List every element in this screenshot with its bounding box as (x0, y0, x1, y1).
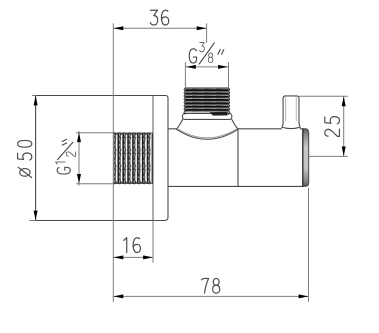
flange edge extension lines for dia 50 (30, 96, 36, 221)
G3/8 text (189, 43, 224, 64)
male thread jagged right edge (229, 88, 230, 114)
bell lower arc (outer) (176, 129, 238, 139)
end cap with shading (303, 129, 309, 187)
36 text (150, 10, 168, 25)
16 text (124, 238, 141, 253)
female thread boundary lines (114, 133, 153, 184)
16 dimension line (113, 256, 153, 258)
78 text (201, 278, 219, 293)
G3/8 dimension extension lines (185, 63, 228, 88)
knob base flare (282, 124, 301, 129)
25 text (rotated) (325, 117, 340, 137)
16 dimension right extension line (152, 221, 154, 262)
78 dimension right extension line (308, 188, 310, 302)
wall-plane extension line (common for 36 / 16 / 78 dims) (112, 24, 114, 302)
male thread top edge (185, 87, 228, 89)
16 arrows (114, 255, 124, 259)
25 dimension line (343, 96, 345, 156)
G1/2 dimension extension lines (77, 133, 114, 184)
G3/8 dimension line (185, 66, 228, 68)
end cap joint line (302, 129, 304, 186)
dia50 dimension arrows (34, 96, 38, 106)
G3/8 arrows (186, 65, 196, 69)
78 arrows (114, 294, 124, 298)
valve body horizontal cylinder (168, 129, 303, 187)
inner bore line (thread end plane) (152, 96, 154, 221)
36 dimension line (113, 27, 206, 29)
25 dimension extension lines (300, 96, 348, 156)
handle knob (283, 96, 299, 127)
female thread G1/2 hatch block (114, 133, 153, 184)
G1/2 text (rotated) (55, 139, 75, 174)
female thread crest points (114, 133, 151, 135)
78 dimension line (113, 295, 308, 297)
dia50 text (rotated) (18, 140, 32, 177)
36 right extension line (valve axis) (206, 24, 208, 43)
bonnet collar (183, 113, 232, 119)
male thread G3/8 block (185, 88, 228, 112)
body joint line (237, 129, 239, 187)
G1/2 dimension line (78, 131, 80, 185)
male thread jagged left edge (184, 88, 185, 114)
G1/2 arrow down (77, 174, 81, 184)
flange plate (wall escutcheon, side view) (36, 96, 168, 221)
knob inner highlight lines (286, 98, 297, 121)
36 arrows (114, 26, 124, 30)
bell lower arc (inner highlight) (178, 129, 236, 138)
bonnet bell (dome over cylinder) (176, 119, 238, 139)
25 arrows (342, 96, 346, 106)
G1/2 arrow up (77, 132, 81, 142)
thread run-out dark wedge on collar (210, 112, 228, 116)
